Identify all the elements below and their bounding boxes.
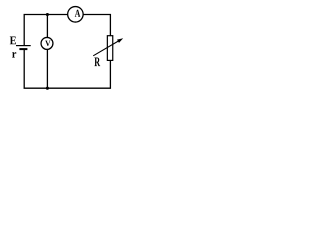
ammeter A: label A (75, 10, 81, 17)
rheostat R: slider arrow shaft (93, 40, 119, 55)
voltmeter V: label V (45, 41, 50, 46)
wire: top-right segment and right side down to rheostat (83, 15, 111, 36)
battery E: long positive plate (16, 45, 31, 47)
voltmeter V: circle (41, 37, 53, 49)
battery E: internal resistance label r (12, 52, 16, 57)
battery E: value label E (10, 36, 16, 44)
wire: left side below battery, bottom side, right side up to rheostat (24, 49, 110, 88)
wire: voltmeter branch upper (46, 14, 48, 38)
rheostat R: value label R (94, 58, 100, 67)
rheostat R: body rectangle (107, 36, 112, 61)
node: junction dot on top wire (46, 13, 49, 16)
ammeter A: circle (68, 7, 84, 22)
wire: top-left segment and left side down to battery (24, 15, 67, 46)
node: junction dot on bottom wire (46, 87, 49, 90)
battery E: short thick negative plate (internal resistance r) (19, 48, 27, 50)
rheostat R: slider arrow head (117, 38, 123, 43)
wire: voltmeter branch lower (46, 49, 48, 88)
